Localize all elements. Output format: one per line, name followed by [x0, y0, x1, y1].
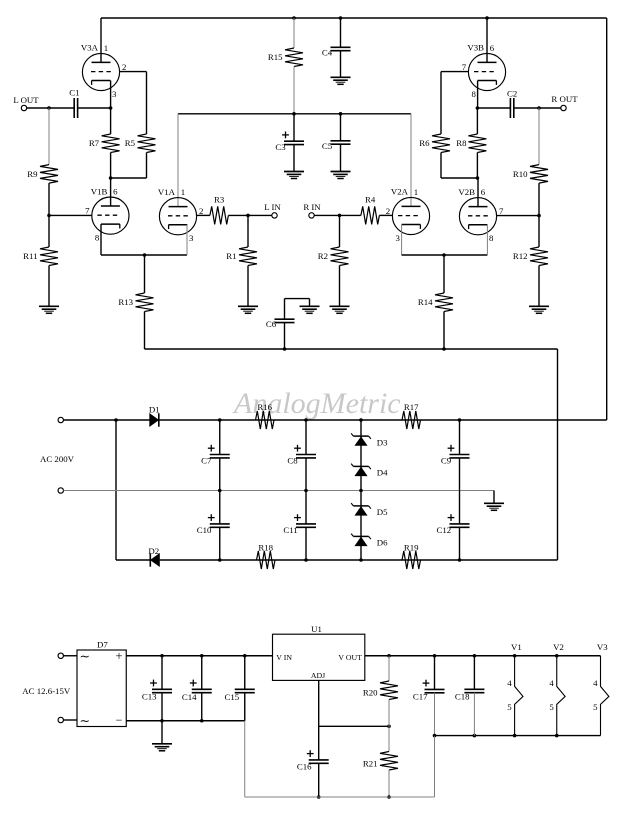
svg-text:D1: D1: [149, 405, 160, 415]
svg-text:R4: R4: [365, 195, 376, 205]
svg-text:C1: C1: [69, 88, 79, 98]
svg-text:R11: R11: [23, 251, 37, 261]
svg-text:R14: R14: [418, 297, 433, 307]
svg-text:7: 7: [462, 62, 467, 72]
svg-text:4: 4: [593, 678, 598, 688]
svg-text:R21: R21: [363, 758, 378, 768]
svg-text:C4: C4: [322, 47, 333, 57]
svg-text:R12: R12: [513, 251, 528, 261]
svg-text:R3: R3: [214, 195, 225, 205]
svg-text:3: 3: [396, 233, 401, 243]
svg-text:C5: C5: [322, 141, 333, 151]
svg-text:R1: R1: [226, 251, 236, 261]
svg-text:C15: C15: [225, 692, 240, 702]
svg-text:AC 12.6-15V: AC 12.6-15V: [22, 686, 71, 696]
svg-text:ADJ: ADJ: [311, 671, 325, 680]
svg-text:C14: C14: [182, 692, 197, 702]
svg-text:1: 1: [414, 187, 418, 197]
svg-text:V2: V2: [553, 642, 564, 652]
svg-text:D5: D5: [377, 507, 388, 517]
svg-text:V3B: V3B: [467, 43, 484, 53]
svg-text:3: 3: [189, 233, 194, 243]
svg-text:L OUT: L OUT: [13, 95, 39, 105]
svg-text:+: +: [115, 649, 122, 663]
svg-text:R IN: R IN: [303, 202, 321, 212]
svg-text:R19: R19: [404, 543, 419, 553]
svg-text:R13: R13: [118, 297, 133, 307]
svg-text:D4: D4: [377, 468, 388, 478]
svg-text:V1B: V1B: [91, 186, 108, 196]
svg-text:R OUT: R OUT: [551, 94, 578, 104]
svg-text:R10: R10: [513, 169, 528, 179]
svg-text:R15: R15: [268, 52, 283, 62]
svg-text:−: −: [116, 713, 123, 727]
svg-text:U1: U1: [311, 624, 322, 634]
svg-text:R6: R6: [419, 138, 430, 148]
svg-text:7: 7: [499, 206, 504, 216]
svg-text:4: 4: [549, 678, 554, 688]
svg-text:R9: R9: [27, 169, 38, 179]
svg-text:3: 3: [112, 89, 117, 99]
svg-text:D6: D6: [377, 538, 388, 548]
svg-text:2: 2: [122, 62, 126, 72]
svg-text:V2A: V2A: [391, 187, 409, 197]
svg-text:C13: C13: [142, 691, 157, 701]
svg-text:V OUT: V OUT: [338, 653, 362, 662]
svg-text:6: 6: [490, 43, 495, 53]
svg-text:V IN: V IN: [276, 653, 292, 662]
svg-text:C7: C7: [201, 456, 212, 466]
svg-text:D7: D7: [97, 640, 108, 650]
svg-text:R7: R7: [89, 138, 100, 148]
svg-text:R5: R5: [125, 138, 136, 148]
svg-text:1: 1: [181, 187, 185, 197]
svg-text:D2: D2: [148, 546, 159, 556]
svg-text:C6: C6: [266, 319, 277, 329]
svg-text:4: 4: [507, 678, 512, 688]
svg-text:R20: R20: [363, 688, 378, 698]
svg-text:R8: R8: [456, 138, 467, 148]
svg-text:1: 1: [104, 43, 108, 53]
svg-text:5: 5: [549, 702, 554, 712]
svg-text:R17: R17: [404, 402, 419, 412]
svg-text:2: 2: [386, 206, 390, 216]
svg-text:C9: C9: [441, 456, 452, 466]
svg-text:C3: C3: [275, 142, 286, 152]
svg-text:6: 6: [113, 187, 118, 197]
svg-text:C8: C8: [287, 456, 298, 466]
svg-text:8: 8: [95, 233, 100, 243]
svg-text:5: 5: [593, 702, 598, 712]
svg-text:V1: V1: [511, 642, 522, 652]
svg-text:C11: C11: [283, 525, 297, 535]
svg-text:C2: C2: [507, 89, 517, 99]
svg-text:V2B: V2B: [458, 187, 475, 197]
svg-text:V3A: V3A: [81, 43, 99, 53]
svg-text:R16: R16: [257, 402, 272, 412]
svg-text:R2: R2: [318, 251, 328, 261]
svg-text:D3: D3: [377, 437, 388, 447]
svg-text:∼: ∼: [80, 714, 90, 728]
svg-text:AC 200V: AC 200V: [40, 454, 75, 464]
svg-text:R18: R18: [258, 543, 273, 553]
svg-text:C10: C10: [197, 525, 212, 535]
svg-text:C18: C18: [455, 691, 470, 701]
svg-text:5: 5: [507, 702, 512, 712]
svg-text:V3: V3: [597, 642, 608, 652]
svg-text:6: 6: [481, 187, 486, 197]
svg-text:C16: C16: [297, 761, 312, 771]
svg-text:V1A: V1A: [158, 187, 176, 197]
svg-text:8: 8: [489, 233, 494, 243]
svg-text:8: 8: [472, 89, 477, 99]
svg-text:C12: C12: [437, 525, 452, 535]
svg-text:C17: C17: [413, 692, 428, 702]
svg-text:7: 7: [85, 206, 90, 216]
svg-text:L IN: L IN: [264, 202, 281, 212]
svg-text:∼: ∼: [80, 650, 90, 664]
